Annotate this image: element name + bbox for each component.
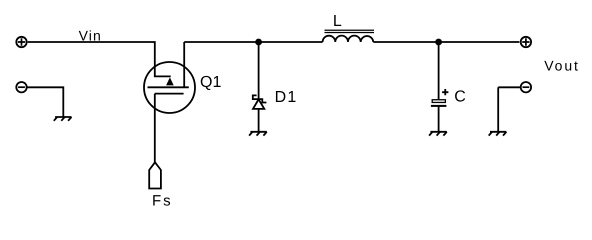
svg-text:D1: D1 [275,89,298,106]
svg-text:Vin: Vin [79,27,102,43]
svg-text:Q1: Q1 [200,74,221,91]
svg-text:Vout: Vout [544,58,580,74]
svg-text:Fs: Fs [152,193,173,210]
svg-text:L: L [333,13,342,30]
svg-text:C: C [454,89,466,106]
